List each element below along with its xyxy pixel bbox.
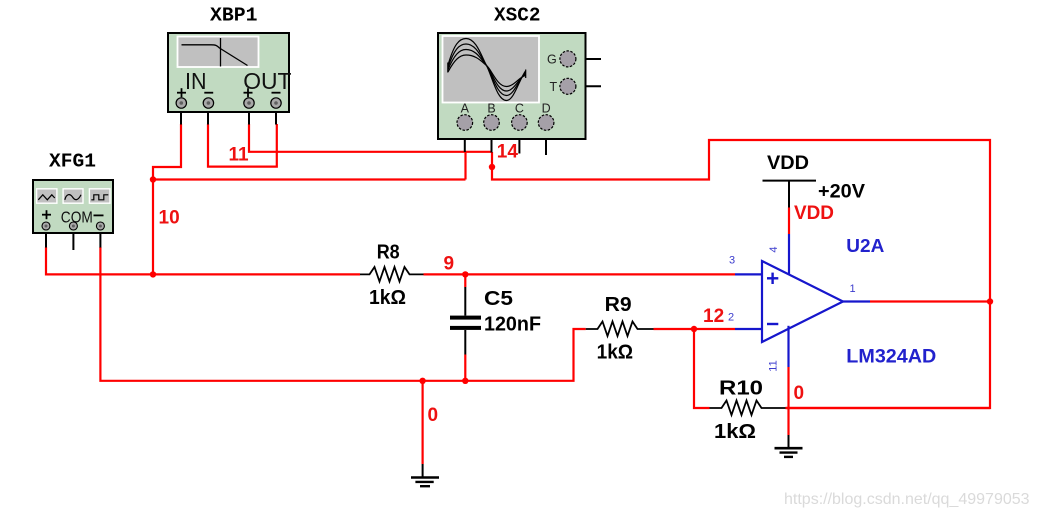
svg-text:R9: R9 xyxy=(605,294,632,316)
svg-text:1kΩ: 1kΩ xyxy=(597,341,634,363)
svg-text:0: 0 xyxy=(794,383,805,404)
svg-text:A: A xyxy=(461,102,470,116)
svg-text:https://blog.csdn.net/qq_49979: https://blog.csdn.net/qq_49979053 xyxy=(784,491,1030,508)
svg-text:VDD: VDD xyxy=(794,203,834,224)
svg-text:14: 14 xyxy=(497,142,519,163)
svg-text:C5: C5 xyxy=(484,288,513,310)
svg-text:0: 0 xyxy=(428,405,439,426)
svg-text:D: D xyxy=(542,102,551,116)
svg-text:XFG1: XFG1 xyxy=(49,151,96,173)
svg-text:2: 2 xyxy=(728,312,734,324)
svg-text:OUT: OUT xyxy=(243,68,291,94)
svg-text:T: T xyxy=(550,80,558,94)
svg-text:C: C xyxy=(515,102,524,116)
svg-text:G: G xyxy=(547,52,557,66)
svg-text:12: 12 xyxy=(703,306,724,327)
svg-text:+20V: +20V xyxy=(818,182,865,203)
svg-text:1kΩ: 1kΩ xyxy=(369,287,406,309)
svg-text:VDD: VDD xyxy=(767,153,809,174)
svg-text:R10: R10 xyxy=(719,378,763,400)
svg-text:1kΩ: 1kΩ xyxy=(714,421,756,443)
svg-text:XBP1: XBP1 xyxy=(210,5,258,27)
svg-text:1: 1 xyxy=(850,283,856,295)
svg-text:11: 11 xyxy=(768,360,780,371)
svg-text:3: 3 xyxy=(729,255,735,267)
svg-text:120nF: 120nF xyxy=(484,314,541,336)
svg-text:U2A: U2A xyxy=(846,236,884,256)
svg-text:9: 9 xyxy=(444,253,455,274)
svg-text:B: B xyxy=(487,102,495,116)
svg-text:R8: R8 xyxy=(377,241,400,263)
svg-text:4: 4 xyxy=(768,246,780,252)
svg-text:IN: IN xyxy=(185,68,207,94)
svg-text:10: 10 xyxy=(159,208,180,229)
svg-text:LM324AD: LM324AD xyxy=(846,347,936,368)
svg-text:11: 11 xyxy=(229,145,250,166)
svg-text:XSC2: XSC2 xyxy=(494,5,541,27)
